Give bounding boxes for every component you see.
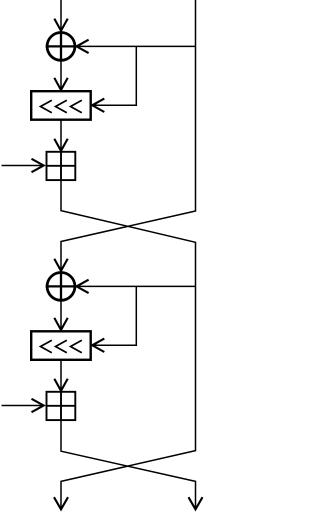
rotate box R2 [31,331,90,360]
arrowhead into X2 top [54,259,67,271]
wire: key input into A2 (left horizontal) [2,405,44,407]
arrowhead into A1 top [54,139,67,151]
adder A2 cross bars [60,392,62,420]
arrowhead right output [189,497,203,509]
wire: key input into A1 (left horizontal) [2,165,44,167]
arrowhead into A1 left [32,159,44,172]
adder A2 box [47,392,76,420]
xor X2 plus bars [46,285,77,287]
wire: feedback into X1 (horizontal from right line) [77,45,196,47]
wire: branch from X2 output to rotate box R2 [92,286,136,345]
arrowhead into X1 right [77,40,89,53]
wire: X1 to R1 (vertical) [60,62,62,90]
xor X1 plus bars [46,45,77,47]
wire: R1 to adder A1 [60,120,62,151]
arrowhead into R2 top [54,318,67,330]
arrowhead into XOR X1 [54,19,67,31]
xor X2 circle [47,273,75,301]
wire: left word input (top vertical) [60,0,62,31]
wire: A2 output crossing to right output (swap S2) [61,420,196,509]
wire: R2 to adder A2 [60,360,62,391]
R1 label chevrons <<< [41,100,82,113]
adder A1 cross bars [60,152,62,180]
wire: branch from X1 output to rotate box R1 [92,46,136,105]
wire: A1 output crossing to right side (swap S1) then down and back at swap S2 [61,180,196,509]
xor X1 circle [47,33,75,61]
wire: feedback into X2 (horizontal from right line) [77,285,196,287]
adder A1 box [47,152,76,180]
rotate box R1 [31,91,90,120]
arrowhead into R2 right [92,339,104,352]
wire: X2 to R2 (vertical) [60,302,62,330]
arrowhead into X2 right [77,280,89,293]
R2 label chevrons <<< [41,340,82,353]
arrowhead into A2 left [32,399,44,412]
arrowhead into R1 top [54,78,67,90]
arrowhead left output [54,497,68,509]
arrowhead into R1 right [92,99,104,112]
wire: right word input (right vertical, crosses to left at swap S1) [61,0,196,271]
arrowhead into A2 top [54,379,67,391]
